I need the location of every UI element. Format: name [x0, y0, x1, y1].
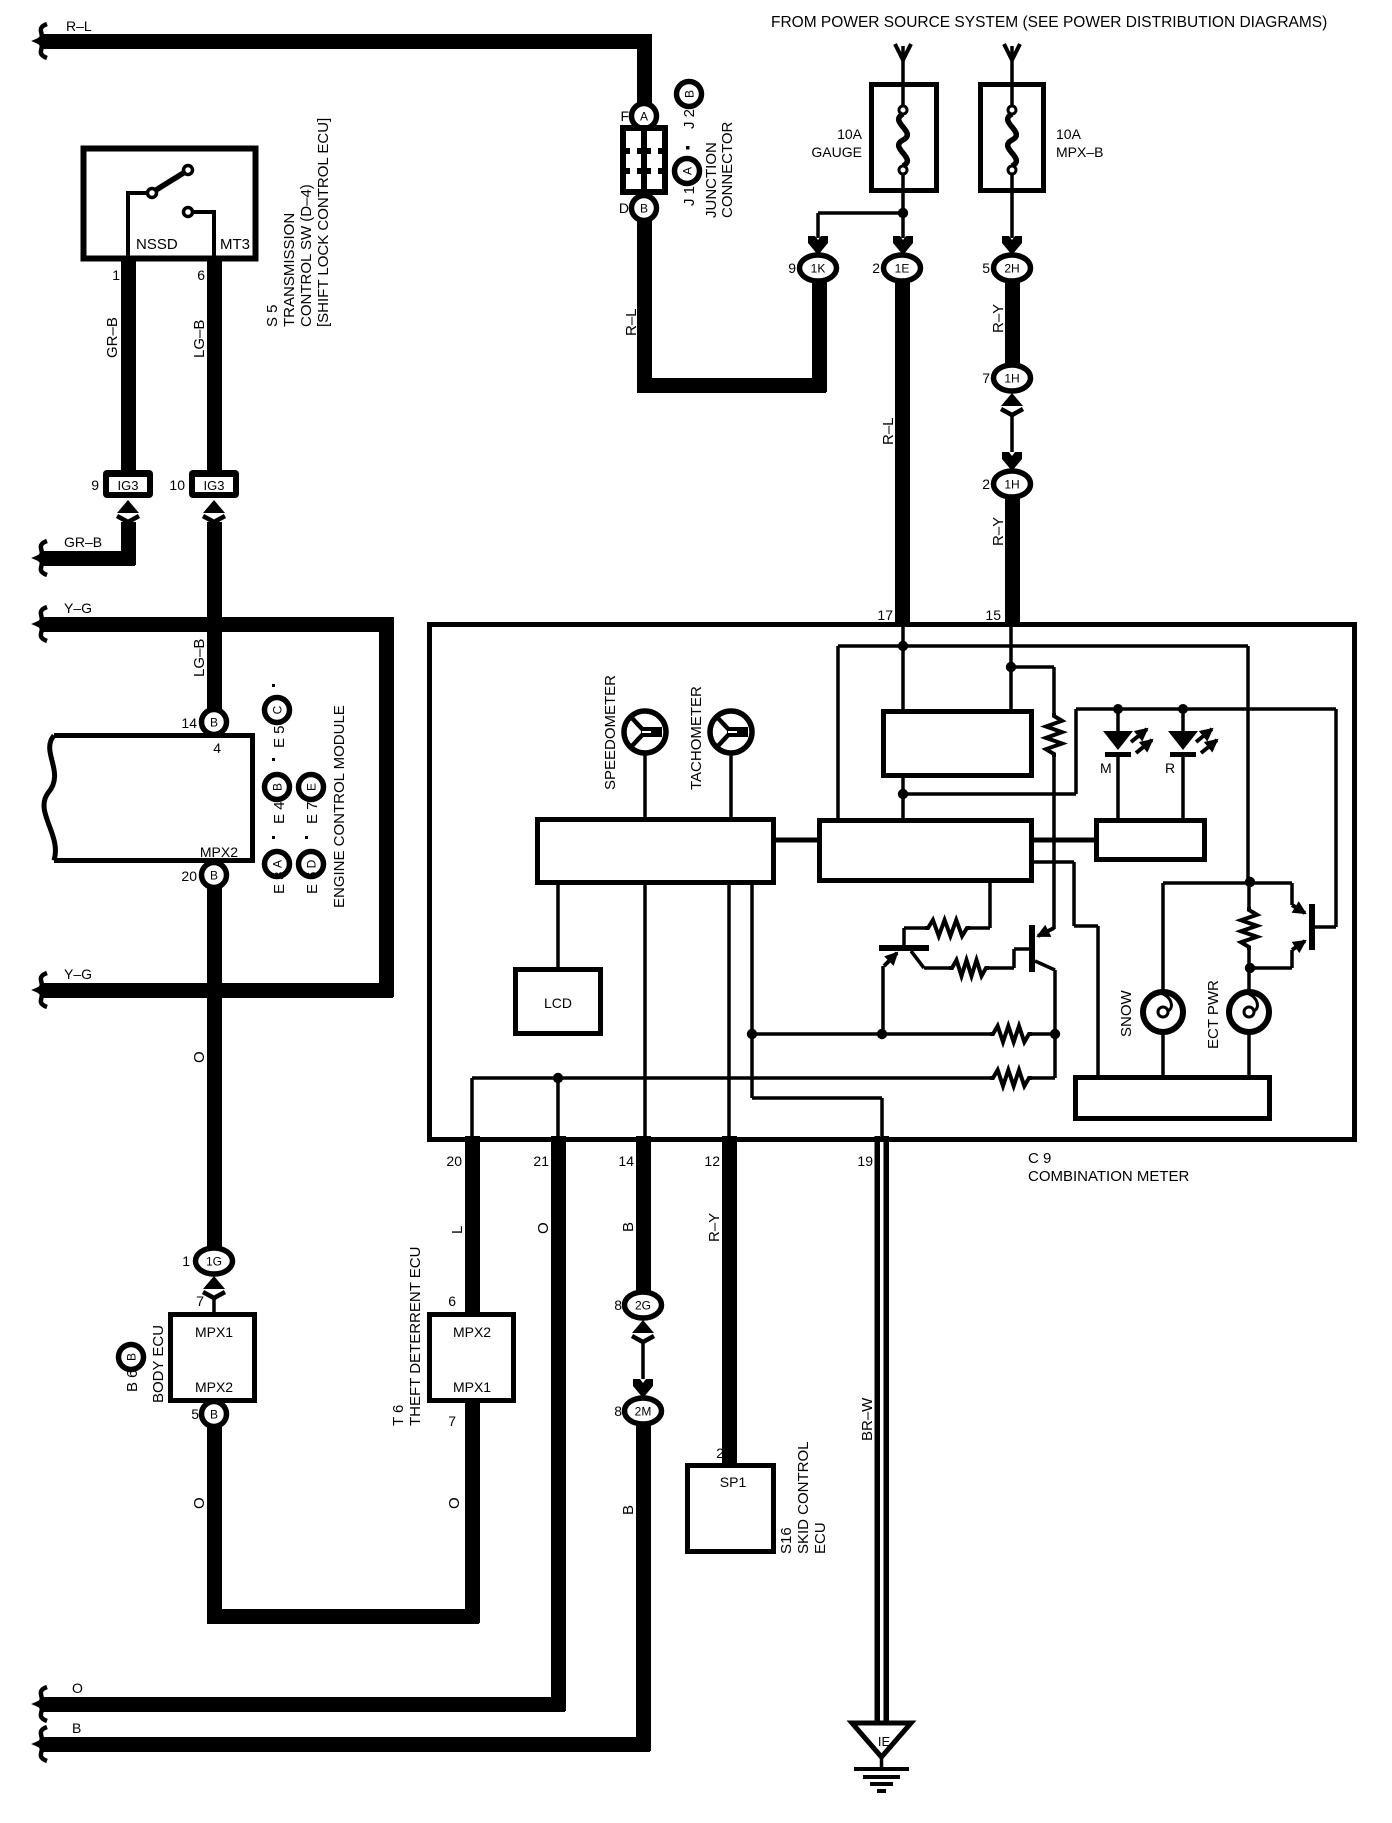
svg-text:MPX2: MPX2: [453, 1324, 491, 1340]
node supply to lamps: [1245, 877, 1255, 887]
arrow into fuse GAUGE: [901, 46, 905, 110]
svg-text:B: B: [210, 1408, 218, 1422]
svg-text:5: 5: [191, 1406, 199, 1422]
svg-text:GAUGE: GAUGE: [811, 144, 862, 160]
svg-text:LG–B: LG–B: [191, 320, 208, 358]
arrow into 1G bottom: [203, 1276, 225, 1298]
inner box3 LED driver: [1097, 821, 1205, 860]
svg-text:C: C: [271, 705, 285, 714]
node pin15 branch: [1006, 662, 1016, 672]
ECM pin 20 circle B: [202, 863, 227, 888]
svg-text:L: L: [449, 1226, 466, 1234]
svg-text:MPX2: MPX2: [195, 1379, 233, 1395]
wire Q1 emitter down: [881, 966, 885, 1034]
svg-text:E: E: [305, 783, 319, 791]
fuse element MPX-B: [1008, 106, 1016, 114]
svg-text:B: B: [125, 1353, 139, 1361]
svg-text:J 2: J 2: [681, 109, 698, 129]
svg-text:10A: 10A: [837, 126, 863, 142]
svg-text:A: A: [640, 110, 648, 124]
wire R-L top horizontal: [40, 34, 651, 49]
svg-text:8: 8: [614, 1297, 622, 1313]
svg-text:B: B: [271, 783, 285, 791]
svg-text:9: 9: [91, 477, 99, 493]
LED M: [1113, 704, 1123, 714]
svg-text:ENGINE CONTROL MODULE: ENGINE CONTROL MODULE: [331, 705, 348, 908]
svg-text:6: 6: [448, 1293, 456, 1309]
wire driver to pin12: [727, 883, 731, 1137]
wire R3 to ground net: [752, 1032, 990, 1036]
svg-text:LG–B: LG–B: [191, 639, 208, 677]
svg-text:6: 6: [197, 267, 205, 283]
wire pin15 into meter: [1009, 627, 1013, 711]
wire R-L below junction connector: [637, 221, 652, 392]
svg-text:E 3: E 3: [271, 871, 288, 894]
connector IG3 pin 10: [189, 470, 239, 498]
svg-text:B: B: [72, 1720, 81, 1736]
svg-text:SP1: SP1: [720, 1474, 747, 1490]
junction connector circle A (F): [632, 104, 657, 129]
svg-text:THEFT DETERRENT ECU: THEFT DETERRENT ECU: [407, 1247, 424, 1426]
wire Y-G upper horizontal: [40, 617, 393, 632]
svg-text:1E: 1E: [895, 262, 910, 276]
lamp SNOW: [1163, 881, 1250, 885]
connector 2M: [625, 1398, 662, 1424]
resistor Rb: [949, 960, 989, 976]
svg-text:SNOW: SNOW: [1118, 989, 1135, 1037]
svg-text:1H: 1H: [1004, 478, 1019, 492]
wire switch pole to pin 1: [128, 193, 147, 256]
svg-text:R: R: [1165, 760, 1175, 776]
wire R1 to Q2 emitter: [1052, 757, 1056, 929]
transmission control switch S5 box: [84, 149, 256, 259]
svg-text:S16: S16: [778, 1527, 795, 1554]
LED R: [1178, 704, 1188, 714]
svg-text:2G: 2G: [635, 1299, 651, 1313]
wire gauge fuse output: [901, 174, 905, 238]
svg-text:20: 20: [446, 1153, 462, 1169]
arrow into 1K: [808, 236, 828, 255]
svg-text:1: 1: [112, 267, 120, 283]
svg-text:O: O: [72, 1680, 83, 1696]
svg-text:10A: 10A: [1056, 126, 1082, 142]
wire O bottom U horizontal: [207, 1609, 479, 1624]
wire GR-B from S5 pin1 to IG3: [121, 256, 136, 470]
wire Y-G lower horizontal: [40, 983, 393, 998]
svg-text:2: 2: [982, 476, 990, 492]
wire B bottom horizontal with break: [40, 1737, 650, 1752]
svg-text:GR–B: GR–B: [104, 317, 121, 358]
wire rail to pin21: [556, 1078, 560, 1137]
svg-text:Y–G: Y–G: [64, 966, 92, 982]
wire pin15 to resistor R1: [1011, 665, 1054, 669]
link driver box to box2: [773, 838, 821, 843]
svg-text:7: 7: [982, 370, 990, 386]
svg-text:MPX–B: MPX–B: [1056, 144, 1103, 160]
svg-text:7: 7: [196, 1293, 204, 1309]
svg-text:O: O: [191, 1051, 208, 1063]
wire rail right drop: [1246, 646, 1250, 882]
wire speedometer to driver box: [643, 753, 647, 819]
node pin17 branch: [898, 641, 908, 651]
svg-text:1H: 1H: [1004, 372, 1019, 386]
wire contact MT3 to pin 6: [193, 212, 214, 256]
svg-text:2: 2: [716, 1445, 724, 1461]
wire O bottom horizontal with break: [40, 1697, 565, 1712]
wire BR-W double line from pin19: [875, 1136, 881, 1723]
svg-text:1: 1: [182, 1253, 190, 1269]
switch contacts inside S5: [148, 189, 157, 198]
wire pin17 horizontal rail: [838, 644, 1248, 648]
svg-text:BODY ECU: BODY ECU: [150, 1325, 167, 1403]
svg-text:[SHIFT LOCK CONTROL ECU]: [SHIFT LOCK CONTROL ECU]: [315, 118, 332, 327]
svg-text:S 5: S 5: [264, 304, 281, 327]
resistor R4: [1032, 1076, 1055, 1080]
wire box1 bottom to LED feed: [901, 775, 905, 820]
wire Rb to Q2 base: [989, 966, 1014, 970]
wire driver to pin14: [643, 883, 647, 1137]
svg-text:B: B: [210, 716, 218, 730]
svg-text:IG3: IG3: [204, 478, 225, 493]
svg-text:R–L: R–L: [623, 308, 640, 336]
connector B6 circle B: [119, 1345, 144, 1370]
ECM connector id E6 D: [299, 852, 324, 877]
transistor Q3: [1309, 904, 1315, 950]
svg-text:B: B: [640, 202, 648, 216]
arrow into fuse MPX-B: [1010, 46, 1014, 110]
svg-text:20: 20: [181, 868, 197, 884]
svg-text:FROM POWER SOURCE SYSTEM (SEE: FROM POWER SOURCE SYSTEM (SEE POWER DIST…: [771, 14, 1327, 31]
svg-text:5: 5: [982, 260, 990, 276]
svg-text:ECT PWR: ECT PWR: [1205, 980, 1222, 1049]
svg-text:SPEEDOMETER: SPEEDOMETER: [602, 675, 619, 790]
wire LG-B IG3 to ECM pin14: [207, 522, 222, 710]
theft deterrent ECU box T6: [430, 1315, 514, 1401]
wire R-L corner down to junction connector: [637, 34, 652, 105]
svg-text:E 6: E 6: [304, 871, 321, 894]
ECM connector id E5 C: [265, 698, 290, 723]
wire O meter pin21 down: [551, 1136, 566, 1711]
fuse element GAUGE: [899, 106, 907, 114]
wire L meter pin20 to theft deterrent: [465, 1136, 480, 1314]
svg-text:JUNCTION: JUNCTION: [703, 142, 720, 218]
resistor R5: [1247, 882, 1251, 907]
svg-text:COMBINATION METER: COMBINATION METER: [1028, 1168, 1190, 1185]
wire rail left drop to box2: [836, 646, 840, 820]
wire Y-G right vertical: [379, 617, 394, 997]
junction connector box: [620, 125, 668, 195]
svg-text:BR–W: BR–W: [859, 1397, 876, 1441]
svg-text:NSSD: NSSD: [136, 236, 178, 253]
pin 6 stub: [207, 256, 222, 274]
wire Q2 collector down: [1053, 970, 1057, 1078]
wire B meter pin14 to 2G: [636, 1136, 651, 1292]
lamp ECT PWR: [1247, 968, 1251, 993]
wire branch to 1K: [818, 211, 903, 215]
arrow into IG3 pin 10: [203, 500, 225, 522]
svg-text:O: O: [191, 1497, 208, 1509]
ground IE triangle: [852, 1723, 911, 1757]
svg-text:R–L: R–L: [880, 417, 897, 445]
svg-text:12: 12: [704, 1153, 720, 1169]
svg-text:A: A: [681, 167, 695, 175]
lamp return box5: [1076, 1078, 1270, 1119]
svg-text:GR–B: GR–B: [64, 534, 102, 550]
svg-text:2H: 2H: [1004, 262, 1019, 276]
wire R-Y meter pin12 to SP1: [722, 1136, 737, 1465]
wire B from 2M down: [636, 1424, 651, 1751]
svg-text:B: B: [210, 869, 218, 883]
wire LED feed rail: [1076, 707, 1336, 711]
arrow up into 1H(7) bottom: [1001, 393, 1023, 415]
skid control ECU box SP1: [688, 1466, 774, 1552]
svg-text:4: 4: [213, 740, 221, 756]
svg-text:IG3: IG3: [118, 478, 139, 493]
svg-text:15: 15: [985, 607, 1001, 623]
svg-text:B: B: [683, 90, 697, 98]
svg-text:CONNECTOR: CONNECTOR: [719, 121, 736, 218]
svg-text:R–L: R–L: [66, 18, 92, 34]
svg-text:R–Y: R–Y: [990, 517, 1007, 546]
transistor Q2: [1029, 925, 1035, 972]
tachometer gauge: [710, 711, 752, 753]
svg-text:J 1: J 1: [681, 186, 698, 206]
svg-text:19: 19: [857, 1153, 873, 1169]
pin 1 stub: [121, 256, 136, 274]
svg-text:1K: 1K: [811, 262, 826, 276]
node junction below gauge fuse: [898, 208, 908, 218]
svg-text:IE: IE: [878, 1734, 891, 1749]
wire O up to theft deterrent pin7: [465, 1403, 480, 1623]
connector 1E pin 2: [884, 255, 921, 281]
svg-text:LCD: LCD: [544, 995, 572, 1011]
resistor R1: [1046, 713, 1062, 757]
fuse 10A GAUGE box: [872, 85, 937, 191]
wire between 1H connectors: [1010, 416, 1014, 452]
connector 1K pin 9: [800, 255, 837, 281]
wire LG-B from S5 pin6 to IG3: [207, 256, 222, 470]
connector 1H pin 7: [994, 365, 1031, 391]
ECM connector id E3 A: [265, 852, 290, 877]
svg-text:MPX1: MPX1: [453, 1379, 491, 1395]
svg-text:E 7: E 7: [304, 801, 321, 824]
svg-text:MPX2: MPX2: [200, 844, 238, 860]
wire R-L bottom horizontal: [637, 378, 826, 393]
svg-text:C 9: C 9: [1028, 1150, 1051, 1167]
engine control module box (torn left edge): [54, 736, 253, 861]
svg-text:8: 8: [614, 1403, 622, 1419]
ECM pin 14 circle B: [202, 710, 227, 735]
connector 2G: [625, 1292, 662, 1318]
LCD box: [516, 970, 601, 1034]
svg-text:E 4: E 4: [271, 801, 288, 824]
junction connector id J2 circle B: [677, 82, 702, 107]
separator dots: [272, 836, 275, 839]
svg-text:MT3: MT3: [220, 236, 250, 253]
svg-text:A: A: [271, 860, 285, 868]
arrow into 2H: [1002, 236, 1022, 255]
connector 2H pin 5: [994, 255, 1031, 281]
wire rail to pin20: [470, 1078, 474, 1137]
wire box2 tap to lamp box: [1034, 860, 1074, 864]
ground hatch: [880, 1757, 884, 1769]
svg-text:21: 21: [533, 1153, 549, 1169]
svg-text:2M: 2M: [635, 1405, 652, 1419]
svg-text:R–Y: R–Y: [706, 1213, 723, 1242]
svg-text:M: M: [1100, 760, 1112, 776]
svg-text:B 6: B 6: [124, 1369, 141, 1392]
svg-text:CONTROL SW (D–4): CONTROL SW (D–4): [298, 184, 315, 327]
svg-text:MPX1: MPX1: [195, 1324, 233, 1340]
connector IG3 pin 9: [103, 470, 153, 498]
wire O from ECM20 down to 1G: [207, 888, 222, 1249]
wire box2 pin to Ra: [988, 881, 992, 928]
svg-text:14: 14: [618, 1153, 634, 1169]
svg-text:D: D: [305, 859, 319, 868]
svg-text:TACHOMETER: TACHOMETER: [688, 686, 705, 790]
connector 1H pin 2: [994, 471, 1031, 497]
svg-text:17: 17: [877, 607, 893, 623]
svg-text:O: O: [446, 1497, 463, 1509]
wire R-Y 2H to 1H: [1005, 281, 1020, 366]
meter driver box: [538, 820, 774, 883]
svg-text:10: 10: [169, 477, 185, 493]
ECM connector id E7 E: [299, 775, 324, 800]
arrow into 1H(2) top: [1002, 452, 1022, 471]
wire ground jog: [752, 1096, 882, 1100]
connector 1G: [196, 1248, 233, 1274]
wire between 2G and 2M: [641, 1343, 645, 1379]
arrow into 1E: [893, 236, 913, 255]
transistor Q1: [902, 928, 906, 945]
combination meter C9 box: [430, 625, 1355, 1140]
junction connector id J1 circle A: [675, 159, 700, 184]
svg-text:9: 9: [788, 260, 796, 276]
svg-text:E 5: E 5: [271, 725, 288, 748]
svg-text:SKID CONTROL: SKID CONTROL: [795, 1441, 812, 1554]
wire driver to LCD: [556, 883, 560, 971]
svg-text:ECU: ECU: [812, 1522, 829, 1554]
svg-text:2: 2: [872, 260, 880, 276]
wire break left end of R-L: [37, 24, 47, 58]
speedometer gauge: [624, 711, 666, 753]
svg-text:7: 7: [448, 1413, 456, 1429]
wire R-Y 1H to meter pin15: [1005, 497, 1020, 625]
svg-text:TRANSMISSION: TRANSMISSION: [281, 213, 298, 327]
wire tachometer to driver box: [729, 753, 733, 819]
svg-text:F: F: [620, 108, 629, 124]
fuse 10A MPX-B box: [981, 85, 1044, 191]
resistor Ra: [970, 926, 990, 930]
svg-text:B: B: [620, 1222, 637, 1232]
body ECU pin 5 circle B: [202, 1402, 227, 1427]
node ground net: [747, 1029, 757, 1039]
wire R-L riser to 1K: [812, 281, 827, 392]
wire O from body ECU pin5 down: [207, 1427, 222, 1623]
svg-text:B: B: [620, 1505, 637, 1515]
wire mpx-b fuse output: [1010, 174, 1014, 238]
wire driver ground leg: [750, 883, 754, 1098]
inner box1: [884, 712, 1032, 776]
junction connector circle B (D): [632, 196, 657, 221]
body ECU box: [171, 1315, 255, 1401]
wire R4 rail to pins 20/21: [472, 1076, 990, 1080]
wire Q1 collector to Rb: [924, 966, 949, 970]
arrow into IG3 pin 9: [117, 500, 139, 522]
svg-text:Y–G: Y–G: [64, 600, 92, 616]
link box2 to box3: [1031, 838, 1098, 843]
svg-text:D: D: [619, 200, 629, 216]
svg-text:R–Y: R–Y: [990, 304, 1007, 333]
arrow into 2G bottom: [632, 1320, 654, 1342]
ECM connector id E4 B: [265, 775, 290, 800]
wire LED rail drop to Q3 base: [1334, 709, 1338, 927]
arrow into 2M top: [633, 1379, 653, 1398]
svg-text:1G: 1G: [206, 1255, 222, 1269]
inner box2: [820, 821, 1032, 881]
wire pin17 into meter: [901, 627, 905, 711]
svg-text:14: 14: [181, 715, 197, 731]
wire R-L 1E to meter pin17: [895, 281, 910, 625]
wire 1G to body ECU: [212, 1299, 216, 1314]
svg-text:T 6: T 6: [390, 1405, 407, 1426]
wire GR-B stub with break: [40, 551, 135, 566]
svg-text:O: O: [535, 1222, 552, 1234]
resistor R3: [1032, 1032, 1055, 1036]
